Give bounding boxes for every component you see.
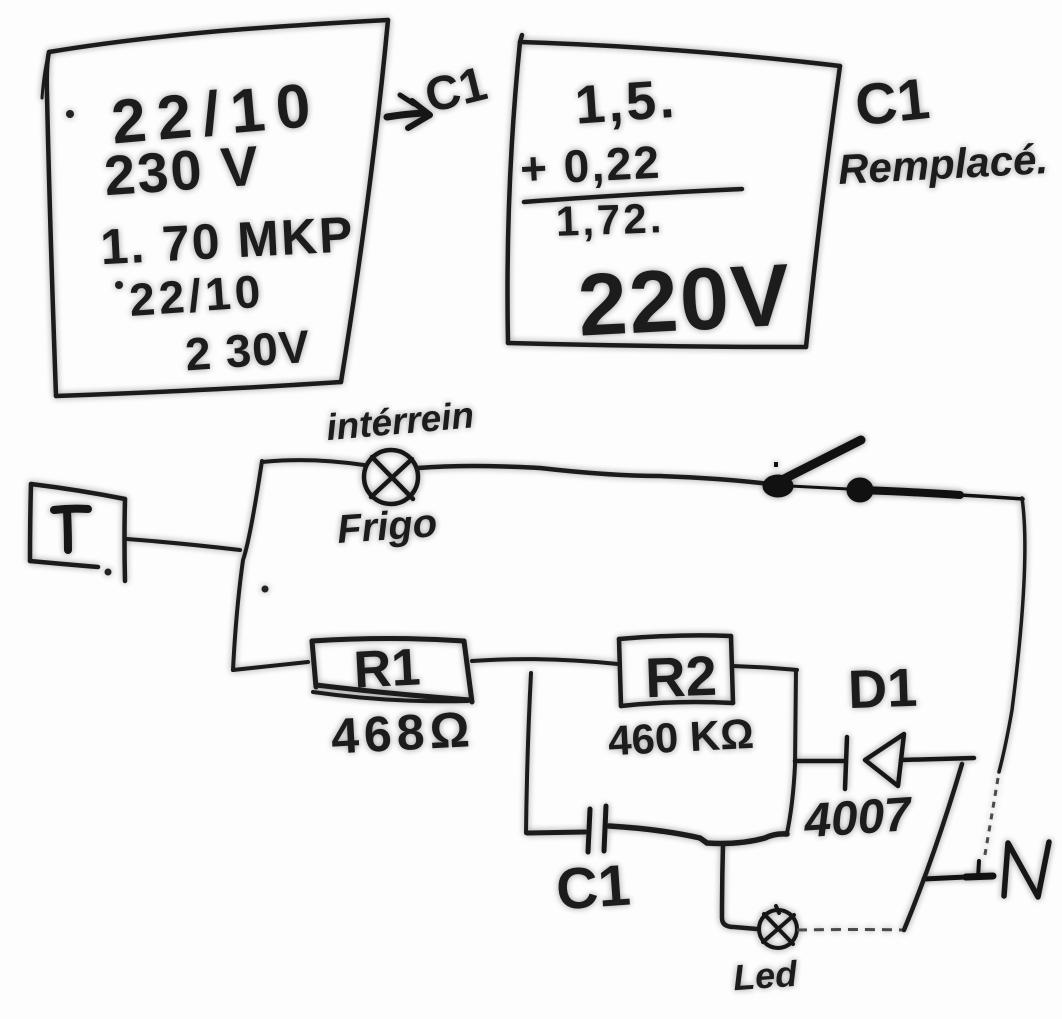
wire right side down to N <box>999 498 1025 772</box>
label C1 (top, after arrow) <box>420 57 492 123</box>
label C1 (right, Remplace) <box>852 66 933 138</box>
wire junction down to R1 <box>233 662 308 670</box>
note box 2 text: 1,5. <box>573 69 679 136</box>
lamp (circle with X) <box>364 450 418 504</box>
note box 1 outline <box>42 20 388 396</box>
dot near T box <box>105 569 112 576</box>
capacitor C1 plates <box>588 806 606 852</box>
svg-text:1,72.: 1,72. <box>555 194 665 245</box>
label D1 <box>847 658 918 720</box>
diode D1 <box>795 734 974 789</box>
svg-text:230 V: 230 V <box>102 133 262 207</box>
terminal T letter <box>54 509 88 550</box>
note box 2 outline <box>508 35 841 347</box>
arrow to C1 <box>387 95 430 128</box>
note box 2 text: 220V <box>576 245 794 355</box>
label R2 <box>644 644 718 709</box>
label N <box>1004 842 1049 897</box>
wire diagonal LED to diode <box>904 764 962 930</box>
note box 1 text: 230V <box>183 320 312 381</box>
svg-text:Led: Led <box>732 953 800 998</box>
svg-text:+ 0,22: + 0,22 <box>519 136 663 195</box>
svg-text:4007: 4007 <box>802 788 916 849</box>
wire branch down to C1 <box>526 673 531 833</box>
svg-text:2 30V: 2 30V <box>183 320 312 381</box>
note box 1 text: 1.70 MKP <box>99 206 356 275</box>
terminal T box <box>30 484 125 581</box>
wire R2 right <box>733 666 797 670</box>
fraction bar <box>524 189 742 202</box>
note box 2 text: 1,72. <box>555 194 665 245</box>
label interrein (above lamp) <box>325 394 476 448</box>
svg-text:C1: C1 <box>554 852 633 922</box>
wire down from R2 <box>787 670 796 833</box>
label Frigo (below lamp) <box>336 501 439 552</box>
svg-text:22/10: 22/10 <box>128 265 266 326</box>
label C1 (capacitor) <box>554 852 633 922</box>
dot node <box>262 586 269 593</box>
resistor R1 box <box>312 639 472 703</box>
switch <box>763 440 1023 502</box>
wire T to junction <box>127 539 240 550</box>
label Led <box>732 953 800 998</box>
label Remplace <box>837 135 1049 193</box>
wire R1 to R2 <box>472 659 618 664</box>
svg-text:460 KΩ: 460 KΩ <box>607 710 755 765</box>
svg-text:R2: R2 <box>644 644 718 709</box>
node N tick <box>924 861 993 879</box>
note box 1 text: 230V <box>102 133 262 207</box>
wire junction to lamp <box>262 460 364 465</box>
LED (circle with X) <box>759 906 797 948</box>
label 468 ohm <box>330 701 476 764</box>
label 460 Kohm <box>607 710 755 765</box>
note box 1 text: .22/10 <box>115 281 123 289</box>
wire LED right <box>797 928 904 932</box>
svg-text:Frigo: Frigo <box>336 501 439 552</box>
svg-text:R1: R1 <box>352 638 421 699</box>
wire down to LED <box>722 844 757 929</box>
capacitor C1 right wire <box>609 826 787 843</box>
label 4007 <box>802 788 916 849</box>
capacitor C1 left wire <box>527 832 585 833</box>
svg-text:220V: 220V <box>576 245 794 355</box>
wire lamp to switch <box>418 466 770 484</box>
svg-text:C1: C1 <box>852 66 933 138</box>
wire vertical junction line <box>233 461 262 670</box>
label R1 <box>352 638 421 699</box>
note box 2 text: + 0,22 <box>519 136 663 195</box>
svg-text:D1: D1 <box>847 658 918 720</box>
resistor R2 box <box>619 635 733 706</box>
note box 1 text: 22/10 <box>66 110 74 118</box>
svg-text:1,5.: 1,5. <box>573 69 679 136</box>
svg-text:468Ω: 468Ω <box>330 701 476 764</box>
